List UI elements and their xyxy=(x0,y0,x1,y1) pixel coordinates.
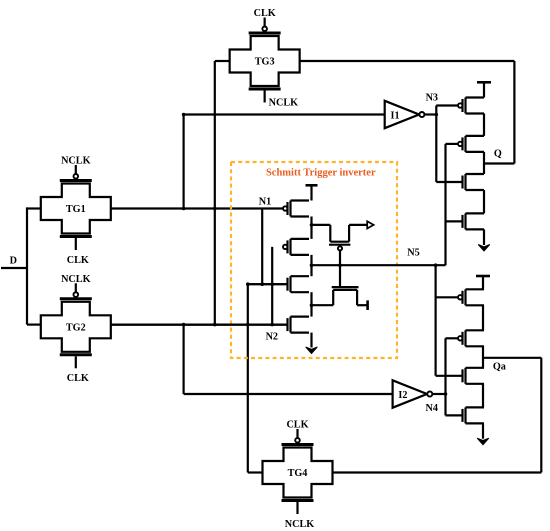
node N5 label xyxy=(407,248,419,259)
ground Schmitt xyxy=(306,347,318,354)
wire N5-up vertical to Q gates xyxy=(444,144,446,265)
pmos M11 Qa stack xyxy=(436,289,484,305)
node D input stub xyxy=(1,256,27,269)
wire node N1 line xyxy=(111,207,283,209)
wire node Qa line xyxy=(483,357,541,359)
wire TG3 right arm to Q feedback xyxy=(300,60,515,62)
inverter I2 xyxy=(393,380,433,407)
svg-text:D: D xyxy=(10,256,17,267)
svg-text:Q: Q xyxy=(494,149,502,160)
power VDD arrow M5 drain xyxy=(367,221,373,228)
nmos M6 feedback lower xyxy=(312,265,368,305)
wire VDD stem Schmitt xyxy=(310,185,312,200)
ground Qa stack xyxy=(477,438,489,445)
svg-text:I1: I1 xyxy=(391,110,400,121)
transmission gate TG1 xyxy=(41,156,111,266)
svg-text:Schmitt Trigger inverter: Schmitt Trigger inverter xyxy=(266,168,376,179)
node Q label xyxy=(494,149,502,160)
transmission gate TG2 xyxy=(41,274,111,384)
pmos M7 Q stack xyxy=(436,98,484,114)
power VDD bar Schmitt xyxy=(306,184,318,187)
ground Q stack xyxy=(478,245,490,252)
wire node N2 line xyxy=(111,324,288,326)
wire M13-M14 chain xyxy=(482,384,484,408)
wire M8-M9 chain Q node xyxy=(483,152,485,174)
nmos M4 Schmitt bottom xyxy=(111,317,309,333)
wire D vertical bus xyxy=(26,207,28,324)
wire node N4 vertical xyxy=(444,338,446,415)
svg-text:CLK: CLK xyxy=(67,255,89,266)
nmos M14 Qa stack xyxy=(446,407,485,423)
inverter I1 xyxy=(385,101,425,128)
wire TG4 right arm to Qa feedback xyxy=(333,471,542,473)
wire TG3 left arm xyxy=(215,60,230,62)
wire node N3 vertical xyxy=(435,106,437,183)
dashed box Schmitt trigger boundary xyxy=(231,162,397,358)
wire M1-M2 chain xyxy=(310,217,312,239)
wire TG2 left lead xyxy=(27,324,41,326)
pmos M8 Q stack xyxy=(446,136,485,152)
wire TG1 left lead xyxy=(27,207,41,209)
wire I2 output xyxy=(432,393,445,395)
wire N1-to-M3gate vertical V1 xyxy=(261,209,263,285)
node Qa label xyxy=(493,362,506,373)
wire M2 gate vertical V2 xyxy=(271,247,273,325)
wire M9-M10 chain xyxy=(483,190,485,213)
wire M12-M13 chain Qa node xyxy=(482,346,484,368)
pmos M5 feedback upper xyxy=(312,225,368,265)
wire junction dots xyxy=(182,113,448,396)
nmos M10 Q stack xyxy=(446,213,485,229)
svg-text:N3: N3 xyxy=(426,93,438,104)
svg-text:CLK: CLK xyxy=(254,8,276,19)
wire feedback right vertical xyxy=(513,61,515,164)
wire node Q line xyxy=(484,162,514,164)
wire I1 input line xyxy=(184,113,385,115)
svg-text:TG3: TG3 xyxy=(255,57,275,68)
wire M3 gate lead line xyxy=(248,283,288,285)
pmos M2 Schmitt xyxy=(282,239,309,255)
label Schmitt Trigger inverter title xyxy=(266,168,376,179)
nmos M13 Qa stack xyxy=(436,368,484,384)
wire M10 source to ground xyxy=(483,229,485,245)
svg-text:NCLK: NCLK xyxy=(61,274,91,285)
power VDD bar Q stack xyxy=(477,81,491,84)
wire M14 source to ground xyxy=(482,423,484,438)
wire I1 output xyxy=(424,113,436,115)
svg-text:N1: N1 xyxy=(259,197,271,208)
svg-text:TG1: TG1 xyxy=(66,204,86,215)
wire node N5 line xyxy=(312,264,446,266)
svg-text:N4: N4 xyxy=(425,403,437,414)
wire M3-M4 chain xyxy=(310,292,312,316)
wire N1-to-I1 vertical xyxy=(183,115,185,209)
nmos M3 Schmitt xyxy=(248,276,309,292)
svg-text:CLK: CLK xyxy=(286,420,308,431)
transmission gate TG3 xyxy=(230,8,300,108)
wire N2-to-TG4 vertical xyxy=(247,284,249,472)
wire N2-to-I2 vertical xyxy=(183,325,185,394)
power rail bar M6 drain xyxy=(366,300,369,310)
svg-text:I2: I2 xyxy=(398,390,407,401)
wire TG4 left arm xyxy=(248,471,263,473)
svg-text:NCLK: NCLK xyxy=(61,156,91,167)
svg-text:Qa: Qa xyxy=(493,362,506,373)
wire M7-M8 chain xyxy=(483,114,485,136)
wire M11-M12 chain xyxy=(482,305,484,330)
wire Qa feedback vertical xyxy=(540,358,542,473)
svg-text:N2: N2 xyxy=(266,332,278,343)
nmos M9 Q stack xyxy=(436,174,484,190)
wire M2-M3 chain xyxy=(310,255,312,276)
wire N5-down vertical to Qa gates xyxy=(435,265,437,376)
node N4 label xyxy=(425,403,437,414)
wire VDD stem Qa xyxy=(482,276,484,289)
wire VDD stem Q xyxy=(483,82,485,97)
power VDD bar Qa stack xyxy=(476,275,490,278)
svg-text:TG4: TG4 xyxy=(288,468,308,479)
pmos M1 Schmitt top xyxy=(282,201,309,217)
svg-text:NCLK: NCLK xyxy=(285,519,315,530)
wire M4 source to ground xyxy=(310,333,312,348)
wire I2 input line xyxy=(184,393,393,395)
wire vertical TG3-to-N2 xyxy=(214,61,216,325)
node N1 label xyxy=(259,197,271,208)
transmission gate TG4 xyxy=(263,420,333,530)
svg-text:TG2: TG2 xyxy=(66,322,86,333)
pmos M12 Qa stack xyxy=(446,330,485,346)
node N2 label xyxy=(266,332,278,343)
node N3 label xyxy=(426,93,438,104)
svg-text:N5: N5 xyxy=(407,248,419,259)
svg-text:NCLK: NCLK xyxy=(269,97,299,108)
svg-text:CLK: CLK xyxy=(67,373,89,384)
